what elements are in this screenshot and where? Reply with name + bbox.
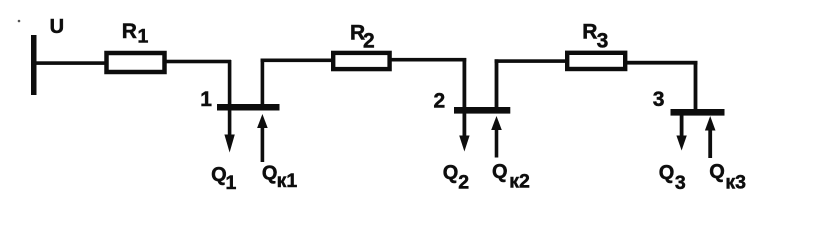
resistor R1	[107, 53, 165, 72]
svg-text:к1: к1	[277, 170, 298, 192]
compensation arrow Qk2	[491, 116, 502, 158]
svg-text:2: 2	[458, 172, 469, 194]
label Q1	[211, 164, 236, 194]
wire U to R1	[36, 61, 107, 65]
svg-text:3: 3	[597, 30, 609, 53]
wire node 1 to R2	[261, 59, 333, 63]
svg-text:R: R	[122, 20, 137, 43]
svg-text:3: 3	[653, 88, 665, 111]
wire drop into bus 1	[228, 60, 232, 104]
svg-text:1: 1	[200, 88, 212, 111]
svg-text:к3: к3	[725, 171, 746, 193]
svg-text:к2: к2	[509, 171, 530, 193]
wire R1 to node 1	[165, 60, 231, 64]
svg-text:3: 3	[675, 172, 686, 194]
bus node 1	[217, 104, 280, 111]
svg-text:Q: Q	[443, 162, 459, 184]
svg-text:1: 1	[226, 172, 237, 194]
svg-text:Q: Q	[492, 161, 508, 183]
wire R2 to node 2	[390, 58, 466, 62]
load arrow Q2	[459, 113, 469, 152]
svg-text:2: 2	[434, 90, 446, 113]
wire riser from bus 1	[261, 59, 265, 105]
svg-text:Q: Q	[262, 163, 278, 185]
svg-text:R: R	[582, 20, 597, 43]
wire R3 to node 3	[627, 61, 698, 65]
svg-text:U: U	[50, 16, 64, 38]
label R3	[582, 20, 608, 52]
wire riser from bus 2	[495, 59, 499, 107]
svg-text:1: 1	[138, 25, 149, 47]
label Q3	[659, 162, 686, 194]
bus node 3	[671, 109, 725, 116]
resistor R3	[567, 53, 625, 69]
svg-text:Q: Q	[211, 164, 227, 186]
source busbar U	[31, 35, 37, 95]
load arrow Q1	[224, 110, 234, 153]
label R1	[122, 20, 149, 48]
label Qk3	[709, 161, 746, 193]
wire drop into bus 2	[463, 58, 467, 107]
label R2	[350, 22, 375, 53]
wire node 2 to R3	[495, 59, 567, 63]
svg-text:2: 2	[363, 30, 375, 53]
label Qk1	[262, 163, 297, 192]
resistor R2	[333, 53, 389, 69]
wire drop into bus 3	[694, 62, 698, 110]
compensation arrow Qk1	[257, 114, 268, 162]
bus node 2	[454, 107, 510, 114]
load arrow Q3	[676, 116, 686, 151]
compensation arrow Qk3	[705, 116, 716, 158]
svg-text:Q: Q	[709, 161, 725, 183]
stray ink speck	[18, 20, 21, 23]
label Qk2	[492, 161, 530, 193]
label Q2	[443, 162, 470, 194]
svg-text:Q: Q	[659, 162, 675, 184]
